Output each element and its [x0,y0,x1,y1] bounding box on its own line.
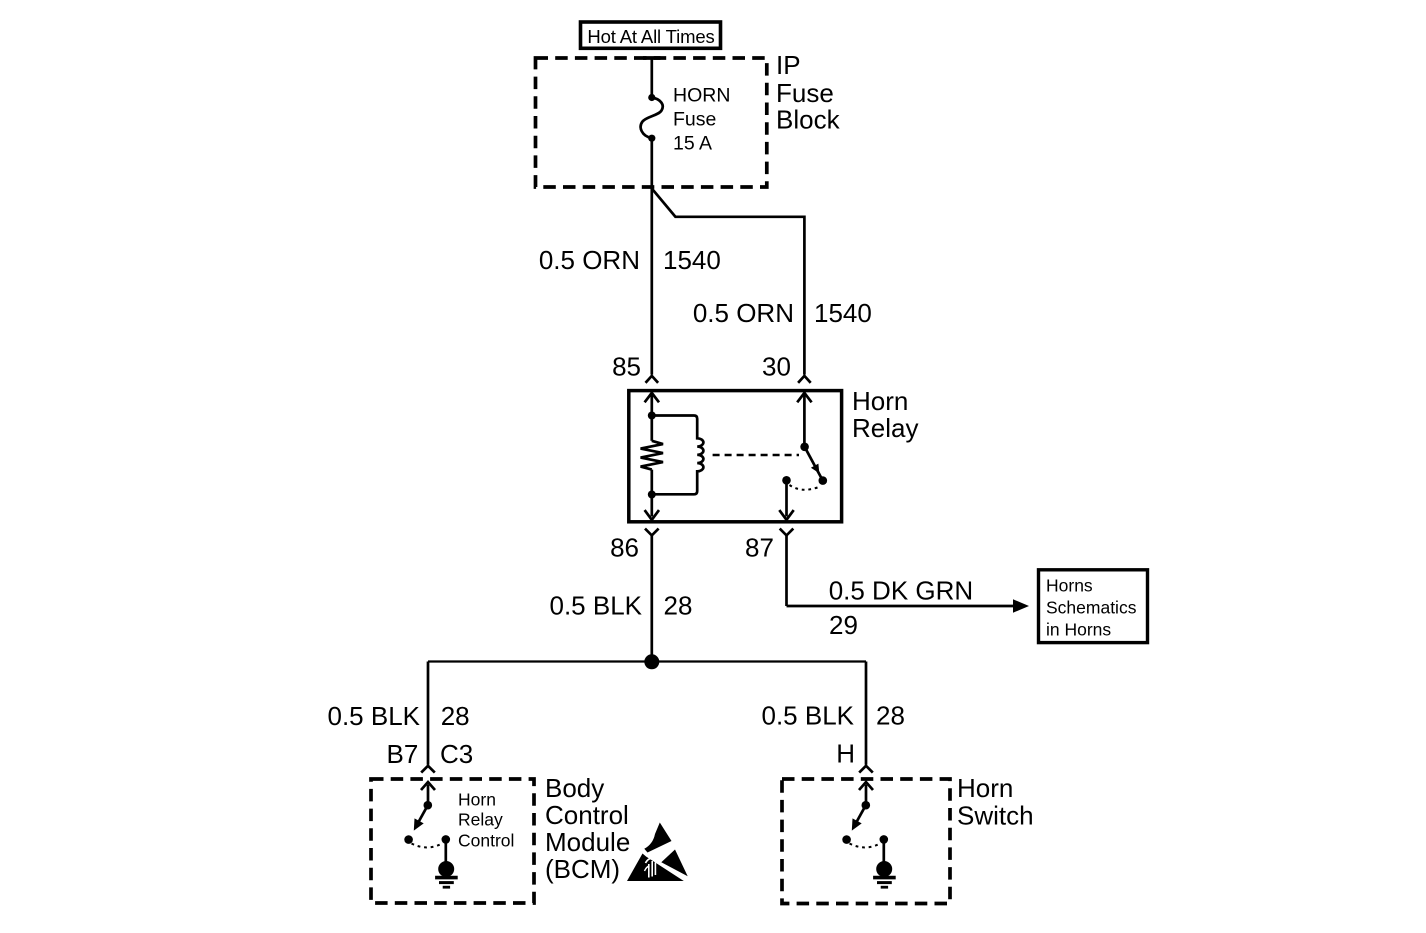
label Horn Relay [852,386,918,443]
svg-text:Horn: Horn [458,790,496,810]
svg-text:Body: Body [545,773,604,803]
svg-text:Module: Module [545,827,630,857]
BCM switch contact node left [404,835,413,844]
svg-text:0.5 BLK: 0.5 BLK [761,701,854,731]
svg-text:B7: B7 [386,739,418,769]
svg-text:Relay: Relay [458,810,503,830]
horn switch common node [862,801,871,810]
wire left drop to BCM [421,662,435,773]
terminal chevron 30 [798,376,811,383]
svg-text:87: 87 [745,533,774,563]
resistor inside relay [641,416,663,495]
IP Fuse Block dashed box [536,58,767,187]
horn switch internal arrow from pin [859,782,873,805]
svg-text:Horn: Horn [852,386,908,416]
horn switch arm with arrowhead [852,805,866,830]
svg-text:Schematics: Schematics [1046,598,1137,618]
wire from Hot At All Times into fuse [643,58,661,97]
svg-text:Relay: Relay [852,413,918,443]
horn switch contact node left [842,835,851,844]
relay pin 85 internal arrow [645,393,659,416]
horn switch contact node right [880,835,889,844]
label Horn Relay Control [458,790,514,851]
svg-text:28: 28 [664,591,693,621]
fuse value label HORN Fuse 15 A [673,85,730,155]
svg-text:85: 85 [612,352,641,382]
relay box Horn Relay [629,391,842,522]
svg-text:IP: IP [776,50,801,80]
ESD sensitive device symbol [627,823,688,882]
Horn Switch dashed box [782,779,950,904]
wire 87 to Horns schematics with arrowhead [787,599,1030,612]
BCM switch arm with arrowhead [414,805,428,830]
svg-text:1540: 1540 [814,298,872,328]
terminal chevron 85 [646,376,659,383]
wire label 0.5 BLK 28 (left drop) [327,701,469,731]
wire label 0.5 BLK 28 (below 86) [549,591,692,621]
BCM switch common node [424,801,433,810]
svg-text:0.5 ORN: 0.5 ORN [693,298,794,328]
svg-text:28: 28 [441,701,470,731]
wire fuse output down to relay pin 85 [650,138,653,374]
relay actuation dashed link [713,454,799,457]
wire right drop to Horn Switch [859,662,873,773]
svg-text:Fuse: Fuse [776,78,834,108]
svg-text:28: 28 [876,701,905,731]
junction node splice [644,654,659,669]
wire label 0.5 BLK 28 (right drop) [761,701,904,731]
BCM switch travel dotted arc [412,843,443,847]
ground (horn switch) [873,839,896,887]
label Horn Switch [957,773,1034,831]
svg-text:in Horns: in Horns [1046,620,1111,640]
svg-text:0.5 ORN: 0.5 ORN [539,245,640,275]
svg-text:0.5 DK GRN: 0.5 DK GRN [829,576,974,606]
svg-text:(BCM): (BCM) [545,854,620,884]
svg-text:H: H [836,739,855,769]
relay coil inductor [654,416,704,495]
label Body Control Module (BCM) [545,773,630,884]
relay contact node 87 [782,476,791,485]
svg-text:Block: Block [776,105,841,135]
relay pin 86 internal arrow [645,495,659,520]
svg-text:0.5 BLK: 0.5 BLK [549,591,642,621]
label IP Fuse Block [776,50,841,135]
terminal Y 87 [780,529,794,606]
fuse HORN Fuse 15 A [641,94,663,142]
wire label 0.5 ORN 1540 (left) [539,245,721,275]
svg-text:86: 86 [610,533,639,563]
relay pin 87 internal arrow [779,480,793,520]
svg-text:29: 29 [829,610,858,640]
svg-text:HORN: HORN [673,85,730,107]
svg-text:Fuse: Fuse [673,109,716,131]
wire branch to relay pin 30 [652,189,805,375]
BCM internal arrow from pin [421,782,435,805]
wire label 0.5 ORN 1540 (branch) [693,298,872,328]
BCM switch contact node right [442,835,451,844]
svg-text:Horns: Horns [1046,576,1093,596]
terminal Y 86 [645,529,659,662]
relay switch arm with arrowhead [805,447,828,485]
relay contact travel dotted arc [790,485,818,490]
wire label 0.5 DK GRN 29 [829,576,974,641]
svg-text:15 A: 15 A [673,133,712,155]
wire horizontal bus [428,660,866,662]
svg-text:0.5 BLK: 0.5 BLK [327,701,420,731]
horn switch travel dotted arc [850,843,881,847]
relay switch common pin 30 [797,393,811,451]
svg-text:Hot At All Times: Hot At All Times [587,26,714,47]
svg-text:Horn: Horn [957,773,1013,803]
svg-text:30: 30 [762,352,791,382]
svg-text:Control: Control [545,800,629,830]
power source label Hot At All Times [581,22,721,48]
svg-text:C3: C3 [440,739,473,769]
off-page reference box Horns Schematics in Horns [1039,570,1148,643]
svg-text:1540: 1540 [663,245,721,275]
pin labels B7 C3 [386,739,473,769]
ground (BCM) [435,839,458,887]
BCM dashed box [371,779,534,903]
node coil bottom [648,491,656,499]
svg-text:Control: Control [458,831,514,851]
node coil top [648,412,656,420]
svg-text:Switch: Switch [957,801,1034,831]
